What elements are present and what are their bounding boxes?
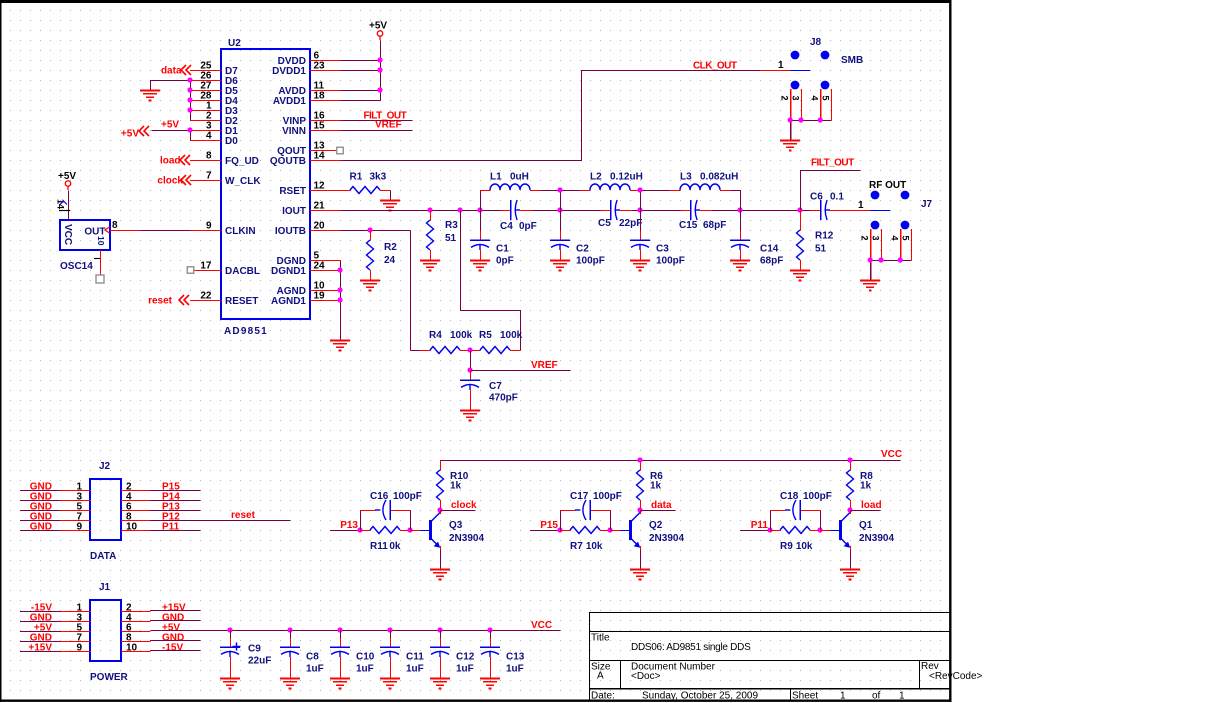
svg-text:J7: J7 [921, 199, 933, 210]
junction C10 [337, 627, 342, 632]
svg-text:1uF: 1uF [306, 664, 324, 675]
junction C2 node [557, 207, 562, 212]
U2 pin 6 (DVDD) stub [278, 51, 341, 67]
svg-text:+15V: +15V [28, 643, 52, 654]
junction AGND [337, 287, 342, 292]
svg-text:1uF: 1uF [456, 664, 474, 675]
svg-text:C9: C9 [248, 644, 261, 655]
no-connect square U2 pin 17 [187, 267, 194, 274]
junction P11 [767, 527, 772, 532]
svg-text:L1: L1 [490, 172, 502, 183]
svg-text:CLK_OUT: CLK_OUT [693, 61, 737, 72]
svg-text:0uH: 0uH [510, 172, 529, 183]
resistor R4 100k [420, 330, 473, 354]
capacitor C1 0pF [470, 210, 514, 267]
port load<< [160, 155, 190, 167]
U2 pin 20 (IOUTB) stub [275, 221, 341, 237]
svg-text:100pF: 100pF [593, 491, 622, 502]
svg-text:1uF: 1uF [406, 664, 424, 675]
svg-text:1uF: 1uF [356, 664, 374, 675]
J8 pin1 stub [760, 70, 791, 72]
wire J2 pin 10 [150, 530, 201, 532]
svg-text:of: of [872, 691, 881, 702]
svg-text:L3: L3 [680, 172, 692, 183]
U2 pin 14 (QOUTB) stub [270, 151, 341, 167]
junction C8 [287, 627, 292, 632]
capacitor C14 68pF [730, 210, 783, 267]
svg-text:12: 12 [314, 181, 326, 192]
OSC14 pin 14 number [56, 199, 71, 211]
svg-text:8: 8 [112, 220, 118, 231]
svg-text:J2: J2 [99, 461, 111, 472]
wire node4 to C6 [712, 210, 811, 212]
junction AGND1 [337, 297, 342, 302]
svg-text:D0: D0 [225, 136, 238, 147]
svg-text:VCC: VCC [531, 620, 552, 631]
U2 pin 15 (VINN) stub [282, 121, 340, 137]
U2 pin 8 (FQ_UD) stub [190, 151, 259, 167]
svg-text:100k: 100k [450, 330, 473, 341]
svg-text:24: 24 [384, 255, 396, 266]
svg-text:<RevCode>: <RevCode> [929, 671, 983, 682]
svg-text:C16: C16 [370, 491, 389, 502]
svg-text:Q2: Q2 [649, 520, 663, 531]
wire IOUTB [341, 230, 411, 232]
svg-text:data: data [651, 500, 672, 511]
no-connect square OSC14 [96, 275, 104, 283]
ground (C14) [730, 261, 750, 271]
wire P11 stub [740, 530, 771, 532]
wire load [850, 510, 852, 514]
svg-text:R12: R12 [815, 231, 834, 242]
svg-text:R11: R11 [370, 541, 388, 552]
ground (R3) [420, 261, 440, 271]
U2 pin 1 (D3) stub [190, 101, 238, 117]
svg-text:DVDD1: DVDD1 [272, 66, 306, 77]
svg-text:C7: C7 [489, 381, 502, 392]
capacitor C11 1uF [380, 630, 424, 679]
svg-text:2N3904: 2N3904 [859, 533, 894, 544]
U2 pin 4 (D0) stub [190, 131, 238, 147]
svg-text:FQ_UD: FQ_UD [225, 156, 259, 167]
no-connect square U2 pin 13 [337, 147, 344, 154]
wire OSC OUT to CLKIN [141, 230, 191, 232]
junction D6 [187, 77, 192, 82]
svg-text:4: 4 [810, 96, 820, 101]
svg-text:8: 8 [206, 151, 212, 162]
svg-text:51: 51 [815, 244, 827, 255]
wire IOUT node [341, 210, 502, 212]
wire DVDD1 [341, 70, 381, 72]
svg-text:U2: U2 [228, 38, 241, 49]
svg-text:1: 1 [778, 60, 784, 71]
ground (C9) [220, 679, 240, 689]
U2 pin 2 (D2) stub [190, 111, 238, 127]
svg-text:Sunday, October 25, 2009: Sunday, October 25, 2009 [642, 691, 758, 702]
resistor R9 10k [770, 527, 821, 553]
svg-text:1k: 1k [860, 481, 872, 492]
junction R4 branch [457, 207, 462, 212]
junction DGND1 [337, 267, 342, 272]
svg-text:VREF: VREF [375, 120, 402, 131]
wire DVDD [341, 60, 381, 62]
svg-text:9: 9 [76, 522, 82, 533]
transistor Q3 2N3904 [410, 513, 484, 548]
svg-text:C6: C6 [810, 192, 823, 203]
connector J1 POWER [20, 582, 186, 683]
resistor R11 0k [360, 527, 411, 553]
svg-text:15: 15 [314, 121, 326, 132]
wire J1 pin 2 [150, 610, 201, 612]
svg-text:DGND1: DGND1 [271, 266, 306, 277]
svg-text:2: 2 [780, 96, 790, 101]
transistor Q1 2N3904 [820, 513, 894, 548]
svg-text:VCC: VCC [62, 224, 73, 245]
junction R4/R5 [467, 347, 472, 352]
capacitor C13 1uF [480, 630, 525, 679]
wire J2 pin 4 [150, 500, 201, 502]
connector J8 SMB [778, 37, 863, 141]
inductor L1 0uH [480, 172, 541, 191]
svg-text:RSET: RSET [279, 186, 306, 197]
wire AVDD [341, 90, 381, 92]
U2 pin 17 (DACBL) stub [194, 261, 260, 277]
junction DVDD [377, 57, 382, 62]
svg-text:2N3904: 2N3904 [449, 533, 484, 544]
svg-text:reset: reset [148, 296, 173, 307]
wire Q2 emitter [640, 546, 642, 550]
U2 pin 10 (AGND) stub [277, 281, 341, 297]
wire DGND/AGND collector [340, 261, 342, 341]
svg-text:AGND1: AGND1 [271, 296, 306, 307]
junction R11/base [407, 527, 412, 532]
svg-text:19: 19 [314, 291, 326, 302]
junction clock [437, 507, 442, 512]
svg-text:14: 14 [314, 151, 326, 162]
svg-text:DACBL: DACBL [225, 266, 260, 277]
svg-text:C13: C13 [506, 652, 525, 663]
svg-text:10: 10 [126, 522, 138, 533]
junction P15 [557, 527, 562, 532]
junction C12 [437, 627, 442, 632]
ground (C8) [280, 679, 300, 689]
wire L2 to L3 [641, 190, 671, 192]
svg-text:VCC: VCC [881, 449, 902, 460]
capacitor C9 22uF [220, 630, 271, 679]
title block texts [591, 633, 983, 702]
ground (C2) [550, 261, 570, 271]
junction DVDD1 [377, 67, 382, 72]
wire FILT_OUT branch [801, 171, 861, 211]
svg-text:AD9851: AD9851 [224, 326, 268, 337]
svg-text:A: A [597, 671, 604, 682]
svg-text:C17: C17 [570, 491, 589, 502]
capacitor C15 68pF [679, 200, 726, 231]
junction L1/L2 [557, 187, 562, 192]
svg-text:L2: L2 [590, 172, 602, 183]
wire node3 [632, 210, 682, 212]
inductor L2 0.12uH [580, 172, 643, 191]
U2 pin 3 (D1) stub [190, 121, 238, 137]
svg-text:load: load [861, 500, 882, 511]
junction data [637, 507, 642, 512]
junction AVDD [377, 87, 382, 92]
U2 pin 12 (RSET) stub [279, 181, 340, 197]
junction R3 [427, 207, 432, 212]
svg-text:C15: C15 [679, 220, 698, 231]
svg-text:18: 18 [314, 91, 326, 102]
ground (R12) [790, 271, 810, 281]
svg-text:20: 20 [314, 221, 326, 232]
svg-text:C4: C4 [500, 221, 513, 232]
capacitor C2 100pF [550, 210, 605, 267]
power symbol +5V (OSC14) [58, 171, 76, 190]
U2 pin 7 (W_CLK) stub [190, 171, 261, 187]
IC U2 AD9851 body [221, 38, 310, 337]
svg-text:3: 3 [870, 236, 880, 241]
svg-text:C2: C2 [576, 244, 589, 255]
U2 pin 5 (DGND) stub [277, 251, 341, 267]
svg-text:10: 10 [126, 643, 138, 654]
J7 pin1 stub [840, 210, 871, 212]
wire J1 pin 4 [150, 620, 201, 622]
svg-text:4: 4 [890, 236, 900, 241]
wire node3 drop [640, 191, 642, 211]
svg-text:1: 1 [899, 691, 905, 702]
junction C14 node [737, 207, 742, 212]
U2 pin 11 (AVDD) stub [278, 81, 340, 97]
wire R1 to ground [390, 191, 392, 201]
svg-text:R5: R5 [479, 330, 492, 341]
port reset<< [148, 295, 189, 307]
svg-text:data: data [161, 66, 182, 77]
svg-text:100pF: 100pF [576, 256, 605, 267]
svg-text:CLKIN: CLKIN [225, 226, 256, 237]
svg-text:2N3904: 2N3904 [649, 533, 684, 544]
U2 pin 13 (QOUT) stub [277, 141, 340, 157]
junction load [847, 507, 852, 512]
svg-text:P13: P13 [340, 520, 358, 531]
wire D1-D0 [190, 131, 192, 141]
junction D4 [187, 97, 192, 102]
resistor R1 3k3 [340, 172, 391, 194]
ground (R2) [360, 281, 380, 291]
svg-text:R4: R4 [429, 330, 442, 341]
svg-text:P11: P11 [751, 520, 769, 531]
ground (C13) [480, 679, 500, 689]
svg-text:OSC14: OSC14 [60, 261, 93, 272]
svg-text:5: 5 [900, 236, 910, 241]
junction L1/C1 [477, 207, 482, 212]
ground (C10) [330, 679, 350, 689]
wire IOUT node to R5 [461, 211, 521, 351]
junction R6 VCC [637, 457, 642, 462]
svg-text:AVDD1: AVDD1 [273, 96, 307, 107]
power symbol +5V (top) [369, 21, 387, 41]
junction C11 [387, 627, 392, 632]
svg-text:68pF: 68pF [703, 220, 726, 231]
wire VREF [471, 370, 571, 372]
svg-text:R9: R9 [780, 541, 793, 552]
svg-text:RF OUT: RF OUT [869, 180, 906, 191]
svg-text:Sheet: Sheet [792, 691, 818, 702]
junction C9 [227, 627, 232, 632]
resistor R5 100k [470, 330, 523, 354]
resistor R2 24 [367, 230, 398, 281]
ground (data bus) [140, 91, 160, 101]
resistor R12 51 [797, 210, 834, 271]
inductor L3 0.082uH [670, 172, 738, 191]
svg-text:DDS06: AD9851 single DDS: DDS06: AD9851 single DDS [631, 642, 751, 653]
svg-text:P15: P15 [540, 520, 558, 531]
U2 pin 26 (D6) stub [190, 71, 238, 87]
U2 pin 9 (CLKIN) stub [190, 221, 256, 237]
svg-text:DATA: DATA [90, 551, 116, 562]
ground (J7) [860, 281, 880, 291]
wire IOUTB to R4 [410, 231, 412, 351]
svg-text:C3: C3 [656, 244, 669, 255]
svg-text:0k: 0k [389, 541, 401, 552]
svg-text:5: 5 [820, 96, 830, 101]
junction P13 [357, 527, 362, 532]
ground (U2) [330, 341, 350, 351]
svg-text:51: 51 [445, 233, 457, 244]
svg-text:R7: R7 [570, 541, 583, 552]
svg-text:22uF: 22uF [248, 656, 271, 667]
svg-text:C14: C14 [760, 244, 779, 255]
ground (Q2) [630, 570, 650, 580]
svg-text:1uF: 1uF [506, 664, 524, 675]
svg-text:1k: 1k [450, 481, 462, 492]
wire node2 [532, 210, 602, 212]
svg-text:0pF: 0pF [519, 221, 537, 232]
wire J1 pin 8 [150, 640, 201, 642]
wire J2 pin 2 [150, 490, 201, 492]
svg-text:1: 1 [840, 691, 846, 702]
wire P13 stub [330, 530, 361, 532]
resistor R8 1k [847, 460, 874, 511]
svg-text:R1: R1 [350, 172, 363, 183]
svg-text:C5: C5 [598, 218, 611, 229]
U2 pin 18 (AVDD1) stub [273, 91, 341, 107]
svg-text:1: 1 [858, 200, 864, 211]
transistor Q2 2N3904 [610, 513, 684, 548]
capacitor C7 470pF [460, 370, 518, 411]
svg-text:C1: C1 [496, 244, 509, 255]
wire J1 pin 10 [150, 650, 201, 652]
svg-text:Date:: Date: [591, 691, 615, 702]
wire reset net [150, 520, 291, 522]
svg-text:C8: C8 [306, 652, 319, 663]
U2 pin 28 (D4) stub [190, 91, 238, 107]
svg-text:100k: 100k [500, 330, 523, 341]
wire FILT_OUT from VINP [341, 120, 413, 122]
svg-text:Q3: Q3 [449, 520, 463, 531]
U2 pin 21 (IOUT) stub [282, 201, 340, 217]
junction VREF [467, 367, 472, 372]
junction R7/base [607, 527, 612, 532]
ground (C7) [460, 411, 480, 421]
wire CLK_OUT net [341, 71, 761, 161]
wire VCC rail (bottom) [151, 630, 561, 632]
wire D6 to ground [151, 81, 191, 91]
capacitor C8 1uF [280, 630, 324, 679]
U2 pin 27 (D5) stub [190, 81, 238, 97]
svg-text:J8: J8 [810, 37, 822, 48]
svg-text:0.12uH: 0.12uH [610, 172, 643, 183]
junction L2/L3 [637, 187, 642, 192]
wire +5V to OSC VCC pin [68, 191, 70, 221]
OSC14 bottom pin stub [100, 250, 102, 276]
junction C3 node [637, 207, 642, 212]
svg-text:RESET: RESET [225, 296, 258, 307]
wire L3 right drop [731, 191, 741, 211]
U2 pin 19 (AGND1) stub [271, 291, 341, 307]
ground (C11) [380, 679, 400, 689]
svg-text:IOUT: IOUT [282, 206, 306, 217]
svg-text:10k: 10k [586, 541, 603, 552]
capacitor C17 100pF [560, 491, 622, 531]
capacitor C10 1uF [330, 630, 375, 679]
resistor R3 51 [427, 210, 459, 261]
svg-text:-15V: -15V [162, 643, 183, 654]
title block [589, 612, 950, 700]
connector J7 [858, 191, 933, 281]
ground (C3) [630, 261, 650, 271]
svg-text:0.082uH: 0.082uH [700, 172, 738, 183]
U2 pin 24 (DGND1) stub [271, 261, 341, 277]
capacitor C12 1uF [430, 630, 475, 679]
svg-text:17: 17 [200, 261, 212, 272]
svg-text:VREF: VREF [531, 360, 558, 371]
resistor R6 1k [637, 460, 664, 511]
wire P15 stub [530, 530, 561, 532]
svg-text:C11: C11 [406, 652, 424, 663]
wire to R4 [411, 350, 421, 352]
svg-text:J1: J1 [99, 582, 111, 593]
wire J2 pin 6 [150, 510, 201, 512]
svg-text:C18: C18 [780, 491, 799, 502]
junction D3 [187, 107, 192, 112]
sheet border frame [0, 0, 950, 3]
svg-text:22pF: 22pF [619, 218, 642, 229]
wire L1 to L2 [541, 190, 581, 192]
svg-text:R2: R2 [384, 242, 397, 253]
wire +5V to AVDD1 [341, 41, 381, 101]
oscillator OSC14 [60, 220, 110, 272]
svg-text:+5V: +5V [161, 120, 179, 131]
wire VCC rail (transistors) [441, 460, 901, 462]
wire data [640, 510, 642, 514]
svg-text:100pF: 100pF [393, 491, 422, 502]
ground (R1) [380, 201, 400, 211]
capacitor C4 0pF [500, 200, 537, 232]
svg-text:4: 4 [206, 131, 212, 142]
svg-text:W_CLK: W_CLK [225, 176, 261, 187]
U2 pin 22 (RESET) stub [190, 291, 258, 307]
ground (Q3) [430, 570, 450, 580]
connector J2 DATA [20, 461, 180, 562]
svg-text:10: 10 [96, 236, 106, 246]
svg-text:470pF: 470pF [489, 393, 518, 404]
junction R2 [367, 227, 372, 232]
svg-text:21: 21 [314, 201, 326, 212]
wire clock [440, 510, 442, 514]
svg-text:POWER: POWER [90, 672, 129, 683]
svg-text:100pF: 100pF [656, 256, 685, 267]
svg-text:22: 22 [200, 291, 212, 302]
svg-text:FILT_OUT: FILT_OUT [811, 158, 854, 169]
